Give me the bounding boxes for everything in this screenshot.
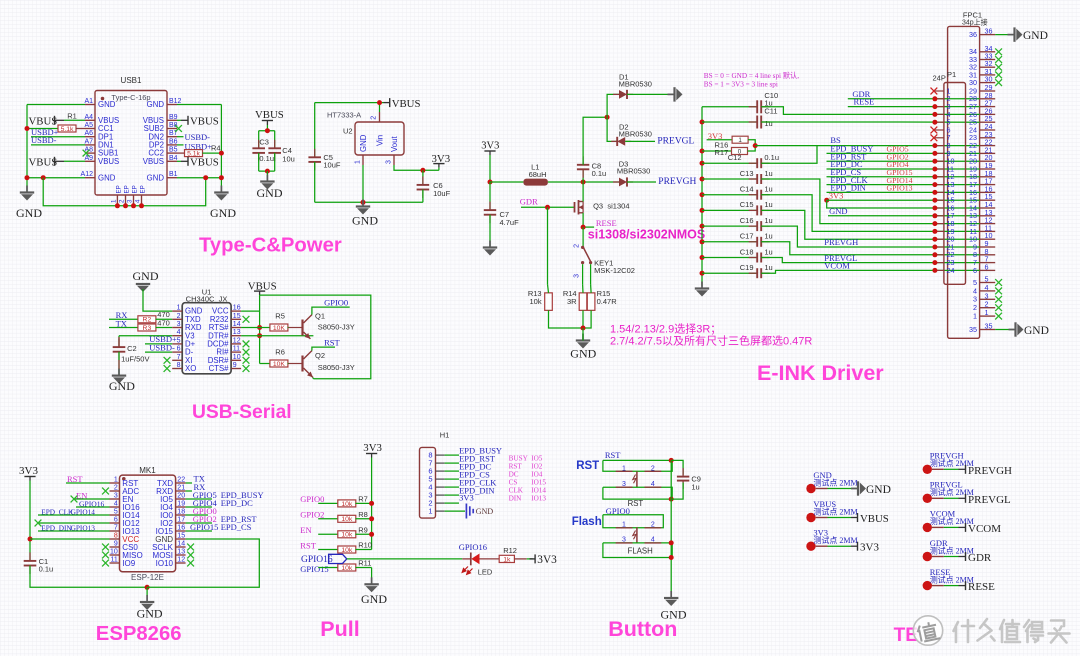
svg-text:1: 1 (973, 312, 977, 321)
resistor R13 (545, 293, 553, 311)
test point TP-GND (806, 470, 857, 493)
FPC1 pin 3 (980, 298, 996, 300)
svg-text:E-INK Driver: E-INK Driver (757, 361, 884, 385)
wire FPC pin35 to GND (995, 329, 1014, 331)
svg-text:IO4: IO4 (531, 470, 543, 478)
svg-text:24: 24 (947, 266, 955, 275)
wire R7 to rail (355, 502, 371, 504)
svg-text:EP: EP (116, 185, 123, 193)
svg-text:C16: C16 (740, 216, 754, 225)
svg-text:1u: 1u (764, 263, 772, 272)
capacitor C17 (749, 237, 770, 247)
svg-text:CS: CS (509, 478, 518, 486)
wire D3 to PREVGH (627, 181, 656, 183)
U1 pin 16 VCC (231, 310, 241, 312)
wire RESE stub (583, 226, 594, 228)
svg-text:RST: RST (324, 337, 340, 347)
FPC1 pin 15 (980, 199, 996, 201)
wire GPIO0 stub (186, 514, 208, 516)
wire RST to R10 (318, 549, 338, 551)
resistor R12 (499, 555, 514, 563)
svg-text:P1: P1 (947, 70, 956, 79)
FPC1 pin 10 (980, 238, 996, 240)
svg-text:A6: A6 (84, 130, 93, 137)
wire B7 USBD- (177, 136, 184, 138)
junction GDR/R13 (545, 205, 550, 210)
svg-text:34p上接: 34p上接 (962, 18, 988, 27)
svg-text:1u: 1u (764, 185, 772, 194)
wire H1 EPD_DC (445, 470, 459, 472)
lead C2 upper (118, 337, 120, 347)
wire H1 EPD_BUSY (445, 454, 459, 456)
svg-text:GPIO13: GPIO13 (887, 184, 913, 193)
svg-text:14: 14 (233, 321, 241, 328)
svg-text:GND: GND (137, 607, 163, 621)
wire GDR to Q3 gate (521, 206, 575, 208)
net port VCOM (TP) (959, 523, 1002, 535)
svg-text:GND: GND (147, 100, 165, 109)
wire pin6 stub (38, 522, 110, 524)
power flag 3V3 (U2 out) (432, 153, 451, 165)
wire TP PREVGH (944, 468, 959, 470)
U1 pin 9 CTS# (231, 368, 241, 370)
capacitor C13 (749, 174, 770, 184)
wire DTR to Q1 emitter (241, 335, 313, 337)
net port VBUS (A9) (29, 157, 58, 169)
wire USBD+ to D+ (145, 343, 172, 345)
wire GPIO0 to R7 (318, 502, 338, 504)
wire resistor bottoms (549, 310, 592, 328)
svg-text:VBUS: VBUS (29, 157, 58, 169)
wire C14 to P1 pin 19 (761, 195, 979, 232)
lead B5 to R4 (177, 152, 185, 154)
wire left loop vertical (259, 311, 261, 363)
junction rail/C12 (700, 161, 705, 166)
svg-text:EP: EP (132, 185, 139, 193)
wire L1 to D3 (548, 181, 619, 183)
wire R14 top lead (582, 284, 584, 293)
svg-text:IO10: IO10 (156, 559, 174, 568)
flag stem (438, 164, 440, 168)
svg-text:C15: C15 (740, 200, 754, 209)
svg-text:测试点 2MM: 测试点 2MM (813, 477, 857, 487)
svg-text:1u: 1u (764, 200, 772, 209)
wire A12 GND row (27, 177, 85, 179)
wire to ground (266, 171, 268, 181)
wire EPD_BUSY to P1 pin 9 (827, 152, 980, 154)
wire BS to P1 pin8 (755, 145, 979, 147)
FPC1 pin 30 (980, 82, 996, 84)
svg-text:1: 1 (428, 507, 432, 516)
wire C10 left lead (702, 106, 757, 108)
no-connect FPC1 pin 4 (995, 288, 1002, 295)
wire C3 bottom lead (258, 153, 260, 171)
wire cap top (259, 130, 275, 132)
FPC1 pin 27 (980, 106, 996, 108)
USB1 pin B12 GND (167, 104, 177, 106)
resistor R8 (338, 515, 356, 523)
MK1 pin 22 TXD (176, 482, 186, 484)
MK1 pin 9 CS0 (110, 546, 120, 548)
svg-text:CTS#: CTS# (209, 364, 230, 373)
svg-text:VBUS: VBUS (255, 109, 284, 121)
U1 pin 11 RI# (231, 351, 241, 353)
wire rail to R1 (27, 128, 58, 130)
U1 pin 3 RXD (172, 327, 182, 329)
svg-text:B4: B4 (169, 155, 178, 162)
wire 3V3 rail down (29, 481, 31, 561)
svg-text:1: 1 (114, 477, 118, 484)
junction rail/B1 (219, 175, 224, 180)
switch KEY1 MSK-12C02 (574, 244, 593, 278)
svg-text:6: 6 (973, 266, 977, 275)
wire KEY1 pin3 down (582, 264, 584, 284)
wire C14 left lead (702, 194, 757, 196)
svg-text:10K: 10K (273, 325, 286, 332)
svg-text:1u: 1u (764, 119, 772, 128)
svg-text:R3: R3 (143, 325, 152, 332)
svg-text:VBUS: VBUS (190, 157, 219, 169)
U1 pin 1 GND (172, 310, 182, 312)
svg-text:10k: 10k (341, 516, 353, 523)
no-connect P1 pin 6 (931, 127, 938, 134)
svg-text:16: 16 (177, 525, 185, 532)
wire KEY1 pin4 down (590, 264, 592, 284)
MK1 pin 11 IO9 (110, 562, 120, 564)
USB1 pin B9 VBUS (167, 119, 177, 121)
wire USBD+ to A6 (31, 136, 85, 138)
junction Vout/C6 (420, 168, 425, 173)
ground (R11) (361, 577, 387, 606)
net port 3V3 (TP) (858, 542, 880, 554)
junction pull rail (369, 501, 374, 506)
wire H1 pin1 to signal ground (445, 510, 465, 512)
junction P1 pin 9 (932, 151, 937, 156)
svg-text:PREVGH: PREVGH (968, 465, 1012, 477)
net port 3V3 (LED) (530, 554, 558, 566)
USB1 pin B5 CC2 (167, 152, 177, 154)
svg-text:USB-Serial: USB-Serial (192, 402, 292, 423)
diode D1 MBR0530 (613, 90, 633, 99)
svg-text:12: 12 (177, 557, 185, 564)
wire VBUS stem down (259, 295, 261, 311)
wire R11 to rail (355, 567, 371, 569)
svg-text:35: 35 (969, 325, 977, 334)
svg-text:RST: RST (300, 540, 316, 550)
svg-text:GPIO15: GPIO15 (190, 522, 218, 532)
svg-text:C13: C13 (740, 169, 754, 178)
wire D2 to PREVGL (625, 140, 655, 142)
svg-text:ESP8266: ESP8266 (96, 623, 182, 645)
svg-text:Flash: Flash (572, 516, 602, 528)
svg-text:A5: A5 (84, 122, 93, 129)
wire USBD- to D- (145, 351, 172, 353)
wire R5 to Q1 base (287, 327, 290, 329)
resistor R2 (138, 316, 156, 324)
MK1 pin 16 IO15 (176, 530, 186, 532)
svg-text:3V3: 3V3 (363, 442, 382, 454)
diode D2 MBR0530 (611, 137, 631, 146)
wire TP GND (828, 488, 857, 490)
svg-text:1.54/2.13/2.9选择3R；: 1.54/2.13/2.9选择3R； (610, 322, 721, 336)
svg-text:1u: 1u (691, 482, 699, 491)
wire V3 row (119, 335, 172, 337)
capacitor C15 (749, 205, 770, 215)
FPC1 pin 31 (980, 74, 996, 76)
wire down to C2 (118, 336, 120, 347)
wire C7 to ground (489, 215, 491, 248)
wire GDR to P1 pin2 (848, 98, 980, 100)
wire EN to R9 (318, 533, 338, 535)
svg-text:PREVGL: PREVGL (968, 494, 1011, 506)
test point TP-VBUS (806, 499, 857, 522)
wire left rail (26, 105, 28, 193)
wire bottom rail (315, 201, 423, 203)
svg-text:R8: R8 (358, 510, 368, 519)
svg-text:Q1: Q1 (315, 311, 325, 320)
USB1 pin B8 SUB2 (167, 128, 177, 130)
U1 pin 13 DTR# (231, 335, 241, 337)
svg-text:11: 11 (111, 557, 118, 564)
U1 pin 7 XI (172, 359, 182, 361)
connector USB1 Type-C-16p body (95, 91, 167, 196)
svg-text:IO5: IO5 (531, 454, 543, 462)
MK1 pin 13 MOSI (176, 554, 186, 556)
junction ground node (581, 326, 586, 331)
svg-text:10k: 10k (341, 501, 353, 508)
capacitor C3 (252, 140, 265, 162)
watermark circle (913, 616, 942, 645)
svg-text:8: 8 (177, 362, 181, 369)
svg-text:BS = 1 = 3V3 = 3 line spi: BS = 1 = 3V3 = 3 line spi (704, 80, 778, 88)
wire TP 3V3 (828, 545, 852, 547)
wire EPD_CLK to pin5 (38, 514, 110, 516)
wire FPC pin36 to GND (995, 34, 1013, 36)
wire C7 top lead (489, 182, 491, 210)
MK1 pin 10 MISO (110, 554, 120, 556)
USB1 pin EP4 (141, 195, 143, 206)
no-connect FPC1 pin 31 (995, 72, 1002, 79)
wire VBUS to A9 (64, 160, 85, 162)
resistor R4 (185, 150, 203, 158)
svg-text:1u: 1u (764, 247, 772, 256)
FPC1 pin 16 (980, 191, 996, 193)
FPC1 pin 26 (980, 113, 996, 115)
wire 3V3 to P1 pin15 (827, 199, 980, 201)
wire C8 up to diode node (583, 117, 607, 165)
capacitor C4 (268, 140, 281, 162)
FPC1 pin 32 (980, 66, 996, 68)
wire EPD_CS to P1 pin 12 (827, 176, 980, 178)
junction D1/D2 (605, 115, 610, 120)
no-connect ESP left pin (102, 544, 109, 551)
wire C1 to bottom rail (30, 566, 147, 588)
capacitor C2 (113, 339, 126, 361)
FPC1 pin 33 (980, 59, 996, 61)
junction C8/Q3 (581, 180, 586, 185)
wire TP PREVGL (944, 497, 959, 499)
svg-text:BS = 0 = GND = 4 line spi 默认,: BS = 0 = GND = 4 line spi 默认, (704, 71, 799, 80)
port lead (384, 102, 390, 104)
svg-text:36: 36 (985, 27, 993, 36)
no-connect ESP right pin (187, 552, 194, 559)
wire VBUS to A4 (64, 119, 85, 121)
net port VBUS (B4) (188, 157, 219, 169)
junction P1 pin 13 (932, 182, 937, 187)
wire C4 bottom lead (274, 153, 276, 171)
wire GPIO15 to R11 (318, 567, 338, 569)
svg-text:IO15: IO15 (531, 478, 546, 486)
svg-text:2: 2 (119, 199, 126, 203)
svg-text:2.7/4.2/7.5以及所有尺寸三色屏都选0.47R: 2.7/4.2/7.5以及所有尺寸三色屏都选0.47R (610, 334, 812, 348)
wire C17 to P1 pin 22 (761, 242, 979, 255)
wire to ground symbol (582, 328, 584, 341)
capacitor C14 (749, 190, 770, 200)
wire H1 EPD_DIN (445, 494, 459, 496)
junction rail/C14 (700, 192, 705, 197)
svg-text:36: 36 (969, 30, 977, 39)
svg-text:470: 470 (157, 319, 170, 328)
wire RTS row (241, 327, 270, 329)
svg-text:测试点 2MM: 测试点 2MM (813, 506, 857, 516)
wire C9 return (671, 483, 683, 500)
wire TP VCOM (944, 526, 959, 528)
svg-text:1u: 1u (764, 169, 772, 178)
ground port (TP) (851, 481, 891, 496)
wire R14 bottom (582, 310, 584, 328)
test point TP-VCOM (923, 509, 974, 532)
wire TP GDR (944, 556, 959, 558)
svg-text:1u: 1u (764, 232, 772, 241)
wire C8 bottom lead (582, 169, 584, 182)
wire to L1 (490, 181, 523, 183)
wire Q3 drain (582, 182, 584, 202)
FPC1 pin 19 (980, 168, 996, 170)
svg-text:2: 2 (177, 313, 181, 320)
wire TP VBUS (828, 517, 852, 519)
MK1 pin 3 EN (110, 498, 120, 500)
svg-text:R17: R17 (715, 148, 729, 157)
ground (USB left) (16, 186, 42, 221)
net port VBUS (B9) (188, 116, 219, 128)
svg-text:3V3: 3V3 (459, 493, 474, 503)
wire to D1 (607, 94, 619, 117)
svg-text:22: 22 (177, 477, 185, 484)
svg-text:VCOM: VCOM (968, 523, 1001, 535)
svg-text:R2: R2 (143, 317, 152, 324)
FPC1 pin 1 (980, 315, 996, 317)
FPC1 pin 20 (980, 160, 996, 162)
wire VBUS stem (266, 125, 268, 131)
junction 3V3/C7 (488, 180, 493, 185)
svg-text:3V3: 3V3 (19, 465, 38, 477)
svg-text:15: 15 (177, 533, 185, 540)
lead R12 to 3V3 (514, 558, 526, 560)
junction DTR row (257, 333, 262, 338)
power flag VBUS (C3/C4) (255, 109, 284, 121)
FPC1 pin 23 (980, 137, 996, 139)
switch SW-FLASH pins 1-2 (616, 522, 662, 529)
wire R6 to Q2 base (287, 363, 290, 365)
svg-text:GPIO2: GPIO2 (300, 510, 324, 520)
power flag 3V3 (pull-ups) (363, 442, 382, 454)
note EPD pin mapping (509, 454, 547, 502)
wire to KEY1 (582, 227, 584, 246)
watermark zhi glyph (916, 620, 940, 642)
watermark smzdm text (954, 619, 1070, 643)
svg-text:Vout: Vout (390, 136, 399, 152)
capacitor C1 (24, 552, 37, 574)
svg-text:6: 6 (985, 262, 989, 271)
wire Flash bottom loop (603, 543, 672, 558)
wire EN to pin3 (74, 498, 110, 500)
svg-text:VBUS: VBUS (392, 98, 421, 110)
wire R13 top (548, 284, 549, 293)
ground (C3/C4) (257, 175, 283, 201)
test point TP-PREVGL (923, 480, 974, 503)
svg-text:H1: H1 (440, 431, 450, 440)
wire C18 left lead (702, 257, 757, 259)
svg-text:CH340C_JX: CH340C_JX (186, 295, 228, 304)
power flag 3V3 (driver) (481, 141, 499, 152)
svg-text:R9: R9 (358, 525, 368, 534)
junction EP pin (115, 203, 120, 208)
svg-text:U2: U2 (343, 127, 353, 136)
svg-text:5: 5 (114, 509, 118, 516)
wire C16 left lead (702, 225, 757, 227)
wire C17 left lead (702, 241, 757, 243)
svg-text:B1: B1 (169, 171, 178, 178)
capacitor C18 (749, 253, 770, 263)
H1 pin 5 (436, 478, 445, 480)
svg-text:10k: 10k (341, 532, 353, 539)
svg-text:MBR0530: MBR0530 (619, 80, 652, 89)
test point TP-GDR (923, 538, 974, 561)
U1 pin 15 R232 (231, 318, 241, 320)
svg-text:1: 1 (738, 137, 742, 144)
svg-text:USB1: USB1 (121, 76, 142, 85)
wire TP RESE (944, 585, 959, 587)
no-connect U1 right pin (243, 341, 250, 348)
svg-text:B9: B9 (169, 114, 178, 121)
wire C11 left lead (702, 121, 757, 123)
wire RST top loop (603, 460, 672, 471)
wire R4 to rail (203, 152, 222, 154)
svg-text:EN: EN (300, 525, 311, 535)
junction P1 pin 4 (932, 112, 937, 117)
svg-text:14: 14 (177, 541, 185, 548)
svg-text:3V3: 3V3 (829, 190, 844, 200)
svg-text:C12: C12 (728, 153, 742, 162)
svg-text:C11: C11 (764, 106, 777, 115)
LED LED1 (462, 553, 499, 575)
svg-text:5: 5 (177, 337, 181, 344)
svg-text:R7: R7 (358, 494, 368, 503)
net port GDR (TP) (959, 552, 992, 564)
H1 pin 2 (436, 502, 445, 504)
wire Vout to 3V3 (394, 165, 439, 170)
svg-text:13: 13 (233, 329, 241, 336)
net port VBUS (A4) (29, 116, 58, 128)
ground (cap bank) (695, 282, 709, 297)
junction GND rail (145, 585, 150, 590)
wire R3 to RXD (156, 327, 173, 329)
wire 3V3 stem down (489, 155, 491, 182)
flag stem (371, 454, 373, 458)
MK1 pin 8 VCC (110, 538, 120, 540)
wire C2 to ground (118, 352, 120, 376)
svg-text:RST: RST (628, 499, 644, 508)
